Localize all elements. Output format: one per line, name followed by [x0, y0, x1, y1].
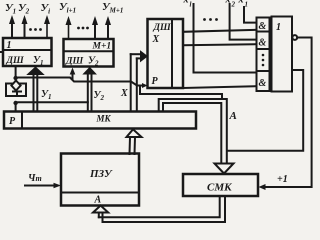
bus SMK to PZU address: [93, 196, 225, 222]
wire from lower node east: [16, 101, 88, 103]
svg-text:X: X: [120, 88, 128, 99]
arrow up into DSh-U2 bottom: [70, 68, 76, 80]
output arrow yl+1: [66, 16, 72, 39]
ROM PZU block: [61, 154, 139, 206]
svg-text:1: 1: [276, 22, 281, 33]
AND gates column: [257, 18, 270, 92]
svg-text:1: 1: [7, 40, 12, 51]
svg-text:2: 2: [231, 1, 236, 9]
wire OR inverted output to +1 input of SMK: [265, 38, 312, 188]
svg-text:Чт: Чт: [28, 173, 42, 184]
svg-text:+1: +1: [277, 174, 288, 185]
svg-text:ДШ: ДШ: [6, 56, 24, 66]
svg-text:x: x: [238, 0, 244, 6]
wire feedback east to DSh-X register input: [16, 78, 144, 86]
Chit read input arrow: [25, 183, 61, 189]
SMK counter block: [183, 174, 258, 196]
bus U1 from MK to DSh-U1: [28, 67, 44, 112]
vertical dots cell: [262, 54, 265, 67]
wire xl input: [194, 4, 257, 73]
svg-text:Р: Р: [152, 76, 159, 87]
svg-text:А: А: [229, 110, 237, 122]
output arrow y2: [22, 15, 28, 38]
wire DSh-X out 1 to AND1: [183, 30, 257, 32]
svg-text:l: l: [190, 1, 192, 9]
svg-text:ПЗУ: ПЗУ: [89, 168, 113, 180]
svg-text:Р: Р: [9, 116, 16, 127]
register MK block: [4, 112, 196, 129]
wire DSh-X out n to ANDn: [183, 86, 257, 88]
svg-text:&: &: [259, 78, 267, 89]
decoder block DSh-X: [148, 19, 184, 88]
bus PZU to MK: [127, 129, 142, 154]
wire x1 input: [244, 7, 257, 23]
left edge input tick at DSh-U1: [0, 51, 3, 53]
svg-text:x: x: [183, 0, 189, 6]
decoder block DSh-U2: [64, 39, 114, 67]
svg-text:1: 1: [245, 1, 249, 9]
bus U2 from MK to DSh-U2: [84, 68, 96, 112]
OR block: [272, 17, 293, 92]
svg-text:&: &: [259, 38, 267, 49]
svg-text:А: А: [94, 195, 102, 206]
bus A from MK to SMK: [159, 99, 234, 174]
node dot upper: [13, 76, 17, 80]
dots between x inputs: [203, 18, 218, 21]
wire DSh-X out 2 to AND2: [183, 44, 257, 45]
svg-text:М+1: М+1: [92, 42, 112, 52]
dots between arrows block1: [29, 28, 42, 31]
wire P feedback down to A bus: [140, 86, 222, 100]
svg-text:СМК: СМК: [207, 182, 232, 194]
OR inverted output circle: [292, 35, 297, 40]
output arrow yM: [92, 16, 98, 39]
wire x2 input: [230, 4, 257, 40]
output arrow y1: [9, 15, 15, 38]
arrowhead into SMK right: [259, 184, 266, 190]
svg-text:&: &: [259, 21, 267, 32]
dots between arrows block2: [77, 27, 89, 30]
arrowhead into DSh-X P input: [142, 83, 148, 88]
node dot lower: [13, 101, 17, 105]
pulse element box with diamond: [6, 81, 26, 97]
decoder block DSh-U1: [3, 38, 52, 66]
svg-text:ДШ: ДШ: [153, 23, 171, 33]
wire OR lower output joining A bus: [227, 70, 303, 151]
bus X from MK to DSh-X: [131, 51, 148, 111]
wire from DSh-U1 output down to node: [15, 67, 17, 84]
output arrow yi: [44, 15, 50, 38]
svg-text:МК: МК: [96, 114, 112, 124]
svg-text:ДШ: ДШ: [65, 57, 83, 67]
wire from lower node to MK top: [15, 103, 17, 112]
svg-text:X: X: [152, 34, 160, 45]
output arrow yM+1: [105, 16, 111, 39]
